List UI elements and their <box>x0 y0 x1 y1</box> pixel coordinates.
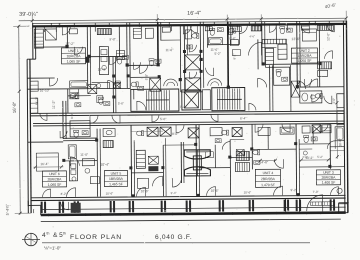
svg-text:9'-6": 9'-6" <box>229 37 235 41</box>
svg-text:1BR/2BA: 1BR/2BA <box>67 54 82 58</box>
svg-text:5'-2": 5'-2" <box>317 155 323 159</box>
svg-text:10'-4": 10'-4" <box>100 163 110 167</box>
svg-text:16'-10": 16'-10" <box>40 89 50 93</box>
svg-text:5'-0": 5'-0" <box>160 117 166 121</box>
svg-text:14'-6": 14'-6" <box>259 160 269 164</box>
svg-text:1,060 SF: 1,060 SF <box>48 183 62 187</box>
svg-text:4'-6": 4'-6" <box>249 34 255 38</box>
svg-text:UNIT 4: UNIT 4 <box>263 171 274 175</box>
svg-text:13'-6": 13'-6" <box>291 37 301 41</box>
svg-text:UNIT 5: UNIT 5 <box>111 172 122 176</box>
svg-text:9'-2": 9'-2" <box>291 188 297 192</box>
svg-text:12'-6": 12'-6" <box>98 68 108 72</box>
svg-text:& 5: & 5 <box>53 232 63 239</box>
svg-text:16'-4": 16'-4" <box>40 162 48 166</box>
svg-text:2BR/2BA: 2BR/2BA <box>47 177 62 181</box>
svg-text:11'-6": 11'-6" <box>165 48 173 52</box>
svg-text:1,065 SF: 1,065 SF <box>67 60 81 64</box>
svg-text:1,400 SF: 1,400 SF <box>322 181 336 185</box>
svg-text:8'-0": 8'-0" <box>172 132 178 136</box>
svg-text:16'-0": 16'-0" <box>338 139 342 147</box>
svg-text:10'-2": 10'-2" <box>305 156 313 160</box>
svg-text:UNIT 1: UNIT 1 <box>68 49 79 53</box>
svg-text:5'-8": 5'-8" <box>145 74 149 80</box>
svg-text:9'-4": 9'-4" <box>171 191 177 195</box>
svg-text:6'-4": 6'-4" <box>240 116 246 120</box>
svg-text:14'-2": 14'-2" <box>35 97 39 105</box>
svg-text:16'-8": 16'-8" <box>12 101 17 113</box>
svg-text:9'-0": 9'-0" <box>70 113 74 119</box>
svg-text:1,050 SF: 1,050 SF <box>298 59 312 63</box>
svg-text:UNIT 2: UNIT 2 <box>299 49 310 53</box>
svg-text:16'-4": 16'-4" <box>187 11 201 17</box>
svg-text:1,465 SF: 1,465 SF <box>109 182 123 186</box>
svg-text:10'-6": 10'-6" <box>141 189 149 193</box>
svg-text:10'-6": 10'-6" <box>244 190 252 194</box>
svg-text:FLOOR PLAN: FLOOR PLAN <box>70 234 122 241</box>
svg-text:th: th <box>63 232 66 236</box>
svg-text:2BR/2BA: 2BR/2BA <box>321 176 336 180</box>
svg-text:1BR/2BA: 1BR/2BA <box>109 177 124 181</box>
svg-text:7'-2": 7'-2" <box>180 105 186 109</box>
svg-text:UNIT 6: UNIT 6 <box>49 172 60 176</box>
svg-text:11'-2": 11'-2" <box>52 100 56 109</box>
svg-text:2BR/2BA: 2BR/2BA <box>261 177 276 181</box>
svg-text:5'-6": 5'-6" <box>118 101 124 105</box>
svg-text:10'-6": 10'-6" <box>106 192 114 196</box>
svg-text:⅛"=1'-0": ⅛"=1'-0" <box>44 246 61 251</box>
svg-text:UNIT 3: UNIT 3 <box>323 171 334 175</box>
svg-text:17'-2": 17'-2" <box>65 42 75 46</box>
svg-text:4: 4 <box>42 232 46 239</box>
svg-text:10'-6": 10'-6" <box>211 189 219 193</box>
svg-text:4'-0": 4'-0" <box>332 98 336 104</box>
svg-text:5'-4¾": 5'-4¾" <box>5 203 10 215</box>
svg-text:11'-0": 11'-0" <box>80 153 88 157</box>
svg-text:12'-0": 12'-0" <box>326 33 330 41</box>
svg-text:5'-2": 5'-2" <box>214 52 220 56</box>
svg-text:1BR/2BA: 1BR/2BA <box>298 54 313 58</box>
svg-text:6,040 G.F.: 6,040 G.F. <box>155 234 192 241</box>
svg-text:8'-2": 8'-2" <box>232 54 236 60</box>
svg-text:39'-0¾": 39'-0¾" <box>19 12 38 18</box>
svg-text:th: th <box>47 232 50 236</box>
svg-text:7'-0": 7'-0" <box>313 190 319 194</box>
svg-text:8'-2": 8'-2" <box>61 192 67 196</box>
